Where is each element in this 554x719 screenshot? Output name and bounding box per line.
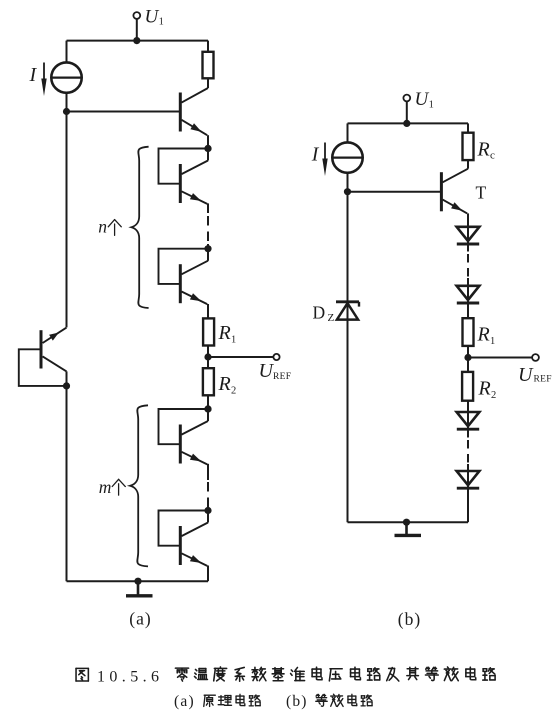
svg-text:I: I [29, 64, 38, 86]
svg-text:U: U [518, 364, 534, 386]
svg-text:(a): (a) [129, 609, 151, 629]
svg-text:I: I [311, 144, 320, 166]
svg-text:n: n [98, 216, 107, 236]
svg-text:REF: REF [534, 375, 552, 385]
svg-text:Z: Z [328, 312, 335, 324]
svg-text:R: R [218, 373, 231, 395]
svg-text:1: 1 [159, 17, 164, 28]
svg-text:1: 1 [490, 336, 495, 347]
svg-text:R: R [477, 139, 490, 161]
svg-text:U: U [145, 6, 160, 27]
svg-text:c: c [490, 149, 495, 161]
svg-text:2: 2 [491, 390, 496, 401]
svg-text:1: 1 [231, 334, 236, 345]
svg-text:U: U [415, 89, 430, 110]
svg-text:(a): (a) [174, 693, 195, 710]
svg-text:T: T [476, 183, 487, 203]
svg-text:2: 2 [231, 386, 236, 397]
svg-text:REF: REF [273, 372, 291, 382]
svg-text:(b): (b) [398, 609, 421, 629]
svg-text:(b): (b) [286, 693, 308, 710]
svg-text:R: R [218, 322, 231, 344]
svg-text:m: m [99, 477, 112, 497]
svg-text:R: R [477, 324, 490, 346]
svg-text:D: D [313, 303, 326, 323]
svg-text:R: R [478, 378, 491, 400]
svg-text:1: 1 [429, 99, 434, 110]
